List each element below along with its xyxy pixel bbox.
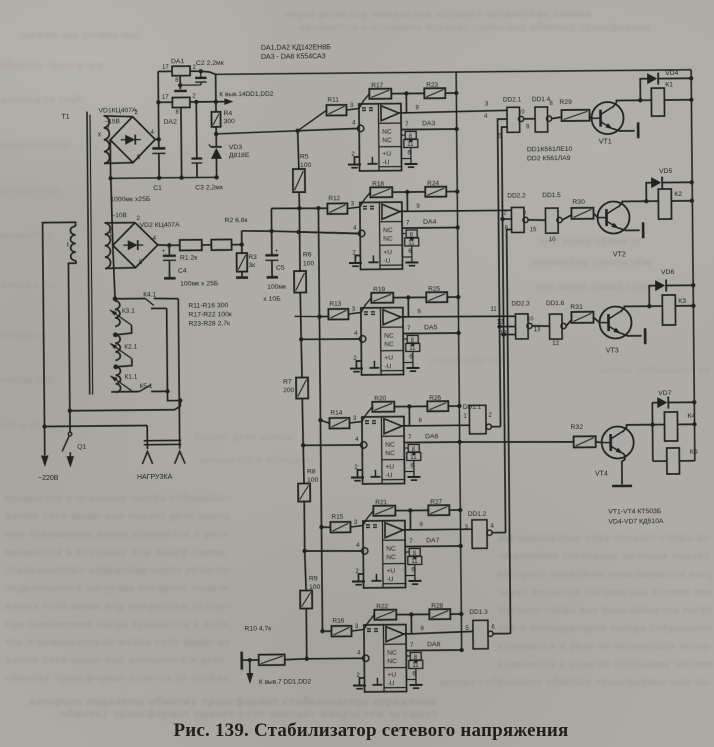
pin 4 input of DA3 bbox=[357, 125, 363, 131]
svg-text:C3 2,2мк: C3 2,2мк bbox=[195, 184, 223, 191]
resistor R5 bbox=[298, 131, 299, 169]
transistor VT3 bbox=[599, 306, 631, 338]
svg-text:NC: NC bbox=[384, 333, 394, 340]
pin 7 output wire of DA8 bbox=[406, 649, 461, 652]
svg-text:R2 6,8к: R2 6,8к bbox=[224, 217, 247, 224]
capacitor C3 bbox=[195, 102, 198, 159]
mains arrow from Q1 bbox=[67, 456, 75, 468]
svg-text:3: 3 bbox=[350, 103, 354, 109]
svg-text:7: 7 bbox=[407, 326, 411, 332]
resistor R30 bbox=[571, 208, 593, 219]
relay contact K1.1 bbox=[111, 376, 133, 392]
resistor R29 bbox=[561, 110, 589, 121]
svg-text:К5: К5 bbox=[690, 449, 698, 456]
svg-text:6: 6 bbox=[491, 625, 495, 631]
svg-text:R8: R8 bbox=[307, 468, 316, 475]
transformer T1 core bbox=[87, 112, 90, 395]
output pin 9 wire of DA6 bbox=[408, 406, 410, 425]
pins 8 and 11 of DA6 bbox=[404, 447, 408, 449]
wire VT1 emitter to ground bar bbox=[613, 128, 635, 131]
svg-text:C1: C1 bbox=[153, 185, 162, 192]
svg-text:7: 7 bbox=[405, 122, 409, 128]
svg-text:NC: NC bbox=[387, 650, 397, 657]
svg-text:Т1: Т1 bbox=[61, 114, 69, 121]
common symbol inside DA8 bbox=[376, 678, 378, 684]
wire DA3 pin4 to node1 bbox=[298, 128, 358, 130]
wire VT2 collector to node bbox=[618, 201, 646, 207]
common symbol inside DA4 bbox=[372, 255, 374, 261]
resistor R26 bbox=[427, 401, 448, 411]
resistor R13 bbox=[328, 309, 348, 320]
wire VD1 output node bbox=[155, 138, 158, 140]
svg-text:VD6: VD6 bbox=[661, 269, 675, 276]
svg-text:11: 11 bbox=[408, 240, 415, 246]
resistor R14 bbox=[329, 418, 349, 429]
pin 4 input of DA4 bbox=[358, 230, 364, 236]
wire VT3 emitter to ground bar bbox=[621, 333, 642, 336]
stub DD2.2 input from bus bbox=[503, 218, 512, 220]
svg-text:1: 1 bbox=[463, 414, 467, 420]
svg-text:Q1: Q1 bbox=[77, 444, 86, 451]
wire DA8 output to DD1.3 bbox=[411, 631, 473, 633]
svg-text:DD1.1: DD1.1 bbox=[463, 404, 482, 411]
svg-text:VT1: VT1 bbox=[599, 139, 612, 146]
svg-text:DD1.2: DD1.2 bbox=[468, 511, 487, 518]
svg-text:4: 4 bbox=[151, 130, 155, 136]
svg-text:I: I bbox=[67, 240, 69, 249]
ground rail under C1 C3 bbox=[111, 177, 216, 178]
common symbol inside DA6 bbox=[374, 470, 376, 476]
transistor VT2 bbox=[597, 201, 629, 233]
resistor R2 bbox=[202, 244, 212, 246]
svg-text:R11: R11 bbox=[327, 97, 339, 104]
svg-text:11: 11 bbox=[412, 663, 419, 669]
wire DA1 output to +9V rail corner bbox=[201, 71, 216, 74]
svg-text:R7: R7 bbox=[283, 379, 292, 386]
svg-text:К2.1: К2.1 bbox=[124, 344, 137, 351]
svg-text:R4: R4 bbox=[223, 110, 232, 117]
comparator DA6 bbox=[362, 417, 405, 484]
logic gate DD2.2 bbox=[511, 207, 524, 232]
svg-text:-U: -U bbox=[382, 159, 389, 166]
svg-text:R18: R18 bbox=[372, 181, 384, 188]
svg-text:4: 4 bbox=[353, 225, 357, 231]
svg-text:R5: R5 bbox=[300, 153, 309, 160]
figure caption bbox=[14, 720, 714, 742]
wire DA6 pin4 from ladder bbox=[303, 444, 360, 447]
wire DA4 pin4 from ladder bbox=[299, 231, 359, 234]
svg-text:VD5: VD5 bbox=[659, 168, 673, 175]
wire DA2 output line bbox=[190, 101, 216, 103]
pin 7 output wire of DA4 bbox=[402, 227, 457, 230]
svg-text:1000мк х25Б: 1000мк х25Б bbox=[110, 196, 151, 203]
svg-text:К выв.7 DD1,DD2: К выв.7 DD1,DD2 bbox=[259, 678, 312, 686]
svg-text:x: x bbox=[98, 131, 102, 138]
load connector bbox=[146, 426, 148, 449]
relay K2 bbox=[646, 200, 658, 202]
svg-text:DA2: DA2 bbox=[164, 119, 178, 126]
svg-text:10: 10 bbox=[518, 109, 524, 115]
svg-text:2: 2 bbox=[134, 110, 138, 116]
svg-text:R32: R32 bbox=[570, 424, 583, 431]
svg-text:+U: +U bbox=[387, 672, 396, 679]
resistor R1 bbox=[169, 244, 179, 246]
svg-text:NC: NC bbox=[387, 658, 397, 665]
svg-text:11: 11 bbox=[409, 346, 416, 352]
svg-text:R26: R26 bbox=[429, 395, 441, 402]
pin 7 output wire of DA7 bbox=[405, 545, 460, 548]
svg-text:-U: -U bbox=[384, 363, 391, 370]
pins 8 and 11 of DA8 bbox=[406, 655, 410, 657]
comparator DA7 bbox=[363, 521, 406, 588]
svg-text:8: 8 bbox=[175, 78, 179, 84]
wire DA4 output to DD2.2 bbox=[407, 209, 511, 212]
wire DA7 pin4 from ladder bbox=[305, 550, 362, 551]
wire primary top to mains left bbox=[43, 222, 78, 426]
+9V top rail bbox=[216, 70, 691, 75]
bridge rectifier VD2 bbox=[113, 222, 158, 267]
voltage regulator DA1 bbox=[172, 66, 190, 76]
svg-text:VD7: VD7 bbox=[658, 390, 672, 397]
svg-text:VT2: VT2 bbox=[613, 251, 626, 258]
svg-text:К3: К3 bbox=[678, 298, 686, 305]
svg-text:11: 11 bbox=[490, 307, 497, 313]
svg-text:C4: C4 bbox=[178, 268, 187, 275]
capacitor C4 bbox=[168, 245, 170, 255]
relay K5 bbox=[652, 425, 654, 461]
resistor R3 bbox=[241, 245, 243, 253]
svg-text:-U: -U bbox=[385, 472, 392, 479]
relay contact K2.1 bbox=[110, 343, 132, 359]
wire winding II upper to VD1 bbox=[104, 116, 133, 117]
relay K3 bbox=[649, 305, 662, 307]
capacitor C1 bbox=[152, 147, 165, 150]
svg-text:R22: R22 bbox=[376, 603, 388, 610]
svg-text:DD2.3: DD2.3 bbox=[511, 300, 530, 307]
svg-text:NC: NC bbox=[383, 227, 393, 234]
svg-text:DA5: DA5 bbox=[424, 324, 438, 331]
svg-text:~220В: ~220В bbox=[38, 475, 59, 482]
svg-text:4: 4 bbox=[490, 524, 494, 530]
svg-text:DD1К561ЛЕ10: DD1К561ЛЕ10 bbox=[527, 146, 573, 153]
resistor R31 bbox=[571, 312, 593, 323]
voltage regulator DA2 bbox=[172, 97, 190, 107]
load terminal fork left bbox=[142, 451, 152, 464]
pullup bus vertical x459 bbox=[456, 72, 462, 650]
svg-text:11: 11 bbox=[410, 455, 417, 461]
svg-text:R27: R27 bbox=[430, 499, 442, 506]
svg-text:4: 4 bbox=[153, 236, 157, 242]
resistor R20 bbox=[362, 407, 373, 422]
svg-text:100: 100 bbox=[300, 162, 312, 169]
svg-text:К1.1: К1.1 bbox=[124, 374, 137, 381]
svg-text:DA8: DA8 bbox=[427, 641, 441, 648]
svg-text:17: 17 bbox=[162, 65, 169, 71]
svg-text:R23: R23 bbox=[426, 82, 438, 89]
svg-text:300: 300 bbox=[224, 118, 236, 125]
svg-text:3к: 3к bbox=[248, 262, 255, 269]
svg-text:7: 7 bbox=[406, 220, 410, 226]
feedback bus DD1.2 output to DD2.1 pin5 bbox=[492, 532, 505, 534]
pin 4 input of DA5 bbox=[359, 336, 365, 342]
svg-text:R17-R22 100к: R17-R22 100к bbox=[188, 311, 231, 318]
common symbol inside DA5 bbox=[373, 361, 375, 367]
svg-text:К4.1: К4.1 bbox=[143, 291, 156, 298]
pins 8 and 11 of DA4 bbox=[402, 233, 406, 235]
svg-text:НАГРУЗКА: НАГРУЗКА bbox=[137, 474, 173, 481]
wire R31 to VT3 base bbox=[593, 317, 599, 323]
svg-text:VD2 КЦ407А: VD2 КЦ407А bbox=[140, 222, 181, 229]
diode VD4 bbox=[640, 79, 647, 101]
pin 4 input of DA6 bbox=[360, 442, 366, 448]
wire R13 feed bbox=[319, 315, 328, 317]
diode VD5 bbox=[646, 183, 651, 202]
svg-text:9: 9 bbox=[415, 105, 419, 111]
pins 8 and 11 of DA5 bbox=[403, 338, 407, 340]
svg-text:100мк: 100мк bbox=[267, 284, 286, 291]
svg-text:9: 9 bbox=[419, 522, 423, 528]
stub DD2.3 input 13 from bus bbox=[504, 333, 516, 335]
wire DD2.3 to DD1.6 bbox=[532, 325, 549, 328]
resistor R18 bbox=[360, 192, 371, 207]
resistor R16 bbox=[331, 626, 351, 637]
svg-text:2: 2 bbox=[192, 94, 196, 100]
svg-text:VT3: VT3 bbox=[606, 347, 619, 354]
diode VD6 bbox=[649, 286, 655, 307]
output pin 9 wire of DA4 bbox=[406, 192, 408, 211]
wire K4.1 tap to inner vertical bbox=[151, 307, 167, 309]
svg-text:R14: R14 bbox=[330, 410, 342, 417]
wire R16 feed bbox=[322, 630, 331, 632]
output pin 9 wire of DA3 bbox=[405, 94, 407, 113]
output pin 9 wire of DA7 bbox=[409, 510, 411, 529]
wire R29 to VT1 base bbox=[590, 116, 593, 118]
common symbol inside DA7 bbox=[375, 574, 377, 580]
svg-text:3: 3 bbox=[352, 307, 356, 313]
wire R2 node up to divider line bbox=[241, 231, 243, 245]
svg-text:VD4-VD7 КД510А: VD4-VD7 КД510А bbox=[608, 518, 664, 526]
wire DD1.5 to R30 bbox=[562, 215, 571, 220]
svg-text:R29: R29 bbox=[559, 99, 572, 106]
svg-text:VT4: VT4 bbox=[595, 471, 608, 478]
right supply rail bbox=[691, 70, 695, 461]
wire VD2 output node bbox=[158, 244, 170, 247]
resistor R23 bbox=[424, 88, 445, 98]
capacitor C2 bbox=[195, 77, 206, 80]
pins 8 and 11 of DA3 bbox=[401, 134, 405, 136]
svg-text:9: 9 bbox=[418, 418, 422, 424]
svg-text:х 10Б: х 10Б bbox=[263, 296, 281, 303]
svg-text:R16: R16 bbox=[332, 618, 344, 625]
svg-text:+U: +U bbox=[383, 249, 392, 256]
wire rail corner down to DA2 output line bbox=[215, 74, 217, 101]
resistor R17 bbox=[359, 94, 370, 109]
svg-text:10: 10 bbox=[549, 237, 556, 243]
svg-text:DD2.1: DD2.1 bbox=[503, 96, 522, 103]
svg-text:DA6: DA6 bbox=[425, 433, 439, 440]
wire VT1 collector to node bbox=[612, 100, 640, 107]
mains rail to load bbox=[44, 425, 147, 428]
svg-text:4: 4 bbox=[484, 114, 488, 120]
svg-text:R21: R21 bbox=[375, 499, 387, 506]
wire DA6 pin7 line to R32 bbox=[460, 441, 574, 443]
svg-text:К1: К1 bbox=[665, 81, 673, 88]
svg-text:1: 1 bbox=[107, 126, 111, 132]
svg-text:NC: NC bbox=[384, 341, 394, 348]
svg-text:NC: NC bbox=[385, 442, 395, 449]
off-page arrow K vyv 14 DD1 DD2 bbox=[216, 101, 225, 103]
pins 8 and 11 of DA7 bbox=[405, 551, 409, 553]
svg-text:100: 100 bbox=[309, 584, 321, 591]
resistor R11 bbox=[326, 105, 346, 116]
wire DA6 output to DD1.1 bbox=[410, 424, 470, 427]
pin 7 output wire of DA5 bbox=[403, 332, 458, 335]
svg-text:VT1-VT4 КТ503Б: VT1-VT4 КТ503Б bbox=[608, 508, 662, 516]
svg-text:DD1.4: DD1.4 bbox=[532, 96, 551, 103]
svg-text:4: 4 bbox=[357, 650, 361, 656]
svg-text:R9: R9 bbox=[309, 575, 318, 582]
svg-text:100мк х 25Б: 100мк х 25Б bbox=[180, 280, 219, 287]
svg-text:2: 2 bbox=[503, 211, 506, 217]
svg-text:DD1.5: DD1.5 bbox=[542, 192, 561, 199]
logic gate DD1.5 bbox=[545, 208, 558, 233]
node1 junction bbox=[295, 129, 299, 133]
svg-text:R20: R20 bbox=[374, 395, 386, 402]
svg-text:4: 4 bbox=[354, 331, 358, 337]
svg-text:К3.1: К3.1 bbox=[122, 308, 135, 315]
resistor R9 bbox=[305, 551, 306, 591]
relay contact K5.1 bbox=[139, 385, 151, 392]
zener diode VD3 bbox=[215, 134, 217, 146]
svg-text:NC: NC bbox=[386, 554, 396, 561]
wire DA2 pin8 down to ground rail bbox=[180, 107, 183, 177]
svg-text:-U: -U bbox=[383, 258, 390, 265]
svg-text:VD3: VD3 bbox=[229, 144, 243, 151]
svg-text:9: 9 bbox=[526, 124, 530, 130]
resistor R12 bbox=[327, 203, 347, 214]
wire R30 to VT2 base bbox=[593, 213, 598, 218]
pin 7 output wire of DA6 bbox=[404, 441, 459, 444]
pin 7 output wire of DA3 bbox=[401, 128, 456, 131]
wire contact output right vertical bbox=[177, 299, 180, 401]
resistor R7 bbox=[300, 339, 303, 377]
relay K1 bbox=[640, 99, 651, 101]
wire R14 feed bbox=[320, 420, 329, 423]
svg-text:DA1,DA2 КД142ЕН8Б: DA1,DA2 КД142ЕН8Б bbox=[261, 44, 331, 52]
svg-text:DA3: DA3 bbox=[422, 120, 436, 127]
svg-text:15: 15 bbox=[530, 227, 537, 233]
common symbol inside DA3 bbox=[371, 157, 373, 163]
resistor R19 bbox=[361, 298, 372, 313]
svg-text:NC: NC bbox=[383, 236, 393, 243]
svg-text:Д818Е: Д818Е bbox=[229, 152, 250, 159]
switch Q1 bbox=[69, 411, 71, 433]
resistor R15 bbox=[330, 522, 350, 533]
svg-text:DD2 К561ЛА9: DD2 К561ЛА9 bbox=[527, 155, 571, 162]
svg-text:R19: R19 bbox=[373, 286, 385, 293]
wire VD1 node up to DA1 DA2 inputs bbox=[157, 102, 159, 139]
logic gate DD2.3 bbox=[515, 314, 528, 339]
output pin 9 wire of DA8 bbox=[410, 614, 412, 633]
svg-text:9: 9 bbox=[417, 309, 421, 315]
transformer winding III tap section 2 bbox=[115, 335, 120, 361]
svg-text:9: 9 bbox=[416, 204, 420, 210]
svg-text:NC: NC bbox=[382, 129, 392, 136]
diode VD7 bbox=[651, 403, 653, 425]
svg-text:C5: C5 bbox=[276, 265, 285, 272]
resistor R25 bbox=[426, 292, 447, 302]
svg-text:+U: +U bbox=[385, 464, 394, 471]
reference rail from R4 to divider node1 bbox=[216, 131, 298, 134]
logic gate DD1.6 bbox=[549, 314, 562, 339]
logic gate DD1.4 bbox=[535, 107, 548, 132]
svg-text:4: 4 bbox=[355, 437, 359, 443]
svg-text:-U: -U bbox=[386, 576, 393, 583]
svg-text:R15: R15 bbox=[331, 514, 343, 521]
svg-text:-U: -U bbox=[387, 680, 394, 687]
terminal bar left of R10 bbox=[240, 652, 243, 670]
resistor R32 bbox=[574, 436, 596, 447]
feedback bus DD1.3 output to DD2.2 bbox=[493, 633, 510, 635]
svg-text:7: 7 bbox=[410, 643, 414, 649]
capacitor C5 bbox=[271, 231, 273, 255]
winding III bottom rail with K5.1 bbox=[111, 391, 139, 393]
svg-text:R17: R17 bbox=[371, 82, 383, 89]
logic gate DD1.3 bbox=[473, 620, 488, 649]
wire DD2.1 to DD1.4 bbox=[524, 118, 535, 120]
resistor R22 bbox=[364, 615, 375, 630]
svg-text:DD1.3: DD1.3 bbox=[469, 609, 488, 616]
svg-text:+: + bbox=[162, 249, 166, 255]
svg-text:12: 12 bbox=[552, 341, 559, 347]
wire DA1 output bbox=[190, 70, 201, 72]
wire DD1.6 to R31 bbox=[566, 320, 571, 326]
svg-text:4: 4 bbox=[356, 543, 360, 549]
svg-text:3: 3 bbox=[485, 102, 489, 108]
svg-text:100: 100 bbox=[303, 260, 315, 267]
svg-text:~15В: ~15В bbox=[105, 118, 120, 125]
resistor R21 bbox=[363, 511, 374, 526]
wire tap output to primary top (autotransformer) bbox=[70, 400, 181, 410]
wire VT3 collector to node bbox=[620, 306, 649, 312]
svg-text:R12: R12 bbox=[328, 195, 340, 202]
resistor R24 bbox=[425, 187, 446, 197]
transistor VT4 bbox=[602, 426, 634, 458]
svg-text:13: 13 bbox=[534, 327, 541, 333]
svg-text:+U: +U bbox=[384, 355, 393, 362]
wire DA7 output to DD1.2 bbox=[411, 528, 472, 531]
bridge rectifier VD1 bbox=[110, 116, 155, 162]
wire DA8 pin4 from ladder bbox=[307, 657, 363, 660]
output pin 9 wire of DA5 bbox=[407, 298, 409, 317]
relay contact K4.1 on top rail bbox=[115, 298, 145, 300]
wire DD1.4 to R29 bbox=[552, 117, 562, 119]
svg-text:NC: NC bbox=[386, 546, 396, 553]
svg-text:К выв.14DD1,DD2: К выв.14DD1,DD2 bbox=[219, 91, 273, 99]
svg-text:9: 9 bbox=[523, 210, 526, 216]
logic gate DD1.1 bbox=[469, 405, 486, 434]
resistor R28 bbox=[429, 609, 450, 619]
svg-text:К5.1: К5.1 bbox=[140, 383, 153, 390]
svg-text:4: 4 bbox=[352, 120, 356, 126]
wire DA3 output to DD2.1 bbox=[406, 110, 507, 112]
svg-text:2: 2 bbox=[488, 413, 492, 419]
svg-text:3: 3 bbox=[355, 624, 359, 630]
comparator DA4 bbox=[360, 202, 403, 269]
transistor VT1 bbox=[591, 102, 623, 134]
comparator DA8 bbox=[364, 625, 407, 692]
reference bus vertical x320 bbox=[318, 208, 322, 631]
